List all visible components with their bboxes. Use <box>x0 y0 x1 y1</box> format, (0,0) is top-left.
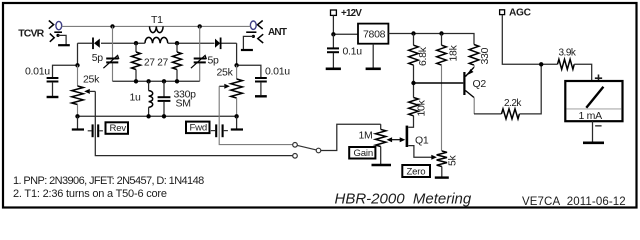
svg-text:25k: 25k <box>217 67 234 79</box>
ground C4 <box>47 96 59 98</box>
box label Zero <box>402 165 430 177</box>
svg-text:330: 330 <box>479 47 491 64</box>
wire collector to 2.2k <box>474 113 502 115</box>
svg-text:VE7CA 2011-06-12: VE7CA 2011-06-12 <box>522 196 626 208</box>
wire meter minus <box>592 121 594 141</box>
resistor R10 2.2k <box>502 98 523 119</box>
label 27 27 <box>144 58 169 69</box>
svg-text:1M: 1M <box>359 130 373 142</box>
svg-text:Zero: Zero <box>407 166 426 177</box>
wire 7808 ground pin <box>372 44 374 68</box>
svg-text:SM: SM <box>176 98 191 110</box>
potentiometer R3 25k left <box>72 65 100 116</box>
ground C8 <box>326 68 341 71</box>
ground meter <box>583 142 604 145</box>
svg-text:5k: 5k <box>447 154 459 166</box>
switch S1 common pole <box>316 148 321 153</box>
note line 2 <box>13 188 167 200</box>
wire top antenna rail <box>62 25 251 27</box>
svg-text:AGC: AGC <box>509 8 532 19</box>
connector J2 ANT <box>246 21 287 44</box>
svg-text:Rev: Rev <box>110 123 127 134</box>
node C3 top <box>162 79 166 83</box>
ground right bus <box>231 116 243 129</box>
title HBR-2000 Metering <box>335 191 472 208</box>
credit VE7CA date <box>522 196 626 208</box>
regulator U1 7808 <box>358 24 388 44</box>
svg-text:–: – <box>595 118 602 133</box>
ground 7808 <box>366 68 381 71</box>
wire left corner down to node <box>77 43 79 65</box>
node lower bus right <box>234 114 238 118</box>
potentiometer R4 25k right <box>217 65 243 116</box>
capacitor C4 0.01u left <box>25 65 78 96</box>
node R2 bottom <box>175 79 179 83</box>
wire TCVR sleeve to ground <box>58 35 66 45</box>
switch S1 arm <box>297 145 316 150</box>
transformer T1 <box>145 14 168 43</box>
ground 1M <box>372 164 392 166</box>
svg-text:5p: 5p <box>208 55 220 67</box>
svg-text:1. PNP: 2N3906, JFET: 2N5457,: 1. PNP: 2N3906, JFET: 2N5457, D: 1N4148 <box>13 175 204 187</box>
diode D2 1N4148 (cathode right) <box>215 38 221 50</box>
potentiometer R5 1M <box>359 124 386 164</box>
wire secondary line y43 <box>78 42 237 44</box>
svg-text:T1: T1 <box>151 14 163 26</box>
inductor L1 1u <box>130 81 153 116</box>
wire 18k to 5k column <box>441 65 443 151</box>
wire 3.9k to meter plus <box>574 64 592 81</box>
node C3 bottom <box>162 114 166 118</box>
svg-text:0.1u: 0.1u <box>343 46 363 58</box>
box label Rev <box>106 122 129 134</box>
node R1 bottom <box>134 79 138 83</box>
svg-text:+: + <box>594 71 602 87</box>
meter M1 1mA <box>565 71 622 133</box>
wire mid bus y81 <box>113 80 200 82</box>
svg-text:Gain: Gain <box>354 148 373 159</box>
svg-text:Q1: Q1 <box>415 135 429 147</box>
node L1 top <box>146 79 150 83</box>
capacitor C6 Rev series <box>88 124 103 137</box>
ground 5k <box>435 176 449 178</box>
wire Rev path to switch <box>95 91 292 155</box>
wire right corner down to node <box>236 43 238 65</box>
svg-text:Fwd: Fwd <box>190 122 208 133</box>
potentiometer R12 5k <box>431 151 458 177</box>
svg-text:0.01u: 0.01u <box>265 66 290 78</box>
wire switch common to 1M top <box>321 124 381 150</box>
svg-text:1u: 1u <box>130 92 142 104</box>
capacitor C1 5p trimmer <box>92 52 119 68</box>
svg-text:ANT: ANT <box>268 27 287 38</box>
svg-text:2. T1: 2:36 turns on a T50-6 c: 2. T1: 2:36 turns on a T50-6 core <box>13 188 167 200</box>
node secondary-R2 top <box>175 41 179 45</box>
capacitor C8 0.1u <box>327 34 362 67</box>
node Q2 base junction <box>411 81 415 85</box>
resistor R9 330 <box>469 45 491 66</box>
switch S1 contact Rev <box>293 154 298 159</box>
wire Fwd path to switch <box>219 86 292 144</box>
svg-text:18k: 18k <box>447 44 459 61</box>
capacitor C3 330p SM <box>158 81 197 116</box>
box label Fwd <box>186 122 210 134</box>
svg-text:5p: 5p <box>92 52 104 64</box>
svg-text:TCVR: TCVR <box>18 27 44 39</box>
wire lower bus y116.3 <box>78 115 237 117</box>
terminal AGC <box>500 8 532 19</box>
node AGC junction <box>539 62 543 66</box>
wire base line <box>414 82 464 84</box>
ground TCVR <box>58 44 70 46</box>
capacitor C2 5p trimmer <box>191 55 219 69</box>
svg-text:Q2: Q2 <box>473 78 487 90</box>
ground ANT <box>241 49 253 51</box>
note line 1 <box>13 175 204 187</box>
svg-text:25k: 25k <box>83 73 100 85</box>
svg-text:0.01u: 0.01u <box>25 66 50 78</box>
wire ANT sleeve to ground <box>243 36 253 49</box>
svg-text:6.8k: 6.8k <box>417 46 429 66</box>
wire 2.2k to AGC node <box>519 64 541 114</box>
node right corner junction <box>234 63 238 67</box>
svg-text:HBR-2000 Metering: HBR-2000 Metering <box>335 191 472 208</box>
svg-text:10k: 10k <box>416 99 428 116</box>
resistor R11 3.9k <box>558 47 577 69</box>
wire 8V rail <box>388 34 474 45</box>
capacitor C5 0.01u right <box>237 65 291 95</box>
ground left bus <box>72 116 84 129</box>
terminal +12V <box>331 8 363 19</box>
node rail-right trimmer column <box>198 24 202 28</box>
node rail-left trimmer column <box>110 24 114 28</box>
resistor R1 27 <box>132 43 141 81</box>
svg-text:2.2k: 2.2k <box>504 98 522 109</box>
switch S1 contact Fwd <box>293 143 298 148</box>
svg-text:3.9k: 3.9k <box>559 47 577 58</box>
node secondary-R1 top <box>134 41 138 45</box>
box label Gain <box>349 147 375 159</box>
wire +12V feed <box>333 15 358 34</box>
node +12V C8 <box>331 32 335 36</box>
svg-text:+12V: +12V <box>341 8 362 19</box>
diode D1 1N4148 (cathode left) <box>93 38 100 50</box>
svg-text:27 27: 27 27 <box>144 58 169 69</box>
node rail 18k <box>439 31 443 35</box>
wire left trimmer column <box>112 26 114 81</box>
transistor Q1 2N5457 JFET <box>407 116 434 158</box>
resistor R6 10k <box>409 83 428 117</box>
resistor R8 18k <box>437 34 460 66</box>
node left corner junction <box>75 63 79 67</box>
wire right trimmer column <box>199 26 201 81</box>
resistor R2 27 <box>173 43 182 81</box>
wire wiper to gate double arrow <box>387 137 406 142</box>
capacitor C7 Fwd series <box>211 124 228 137</box>
node rail 6.8k <box>411 31 415 35</box>
svg-text:7808: 7808 <box>363 28 386 40</box>
wire AGC drop <box>502 15 557 65</box>
node lower bus left <box>75 114 79 118</box>
transistor Q2 2N3906 PNP <box>464 65 486 114</box>
resistor R7 6.8k <box>409 34 429 84</box>
ground C5 <box>255 95 267 97</box>
node L1 bottom <box>146 114 150 118</box>
connector J1 TCVR <box>18 21 62 42</box>
